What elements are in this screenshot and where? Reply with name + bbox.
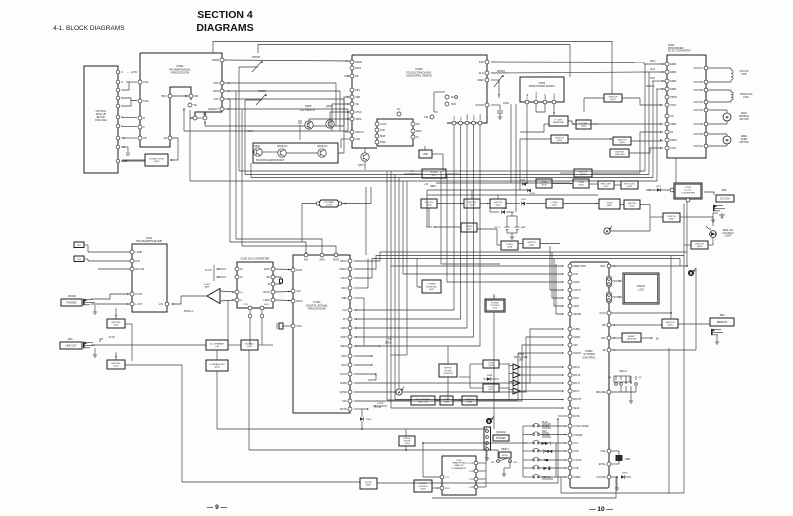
svg-text:K FR: K FR: [573, 451, 579, 453]
wire ripple: [447, 346, 449, 364]
SSTOP network: [491, 104, 500, 106]
servo sub pin S844: [411, 129, 415, 133]
wire dc gnd: [712, 213, 714, 218]
wire PCONT feed: [518, 352, 563, 354]
svg-text:SQSW: SQSW: [339, 391, 347, 394]
svg-text:K PLAY MODE: K PLAY MODE: [573, 425, 589, 428]
wire XLT bundle: [354, 125, 461, 319]
IC401 right pin WBF: [348, 296, 352, 300]
wire LATCH feed: [550, 246, 563, 290]
IC801 pin SUBQ: [568, 327, 572, 331]
svg-text:Q444: Q444: [469, 205, 475, 207]
svg-text:← +3.6V: ← +3.6V: [127, 70, 137, 74]
wire HFB: [424, 146, 426, 150]
switch box Q446: [421, 199, 437, 208]
pickup pin D: [116, 104, 120, 108]
wire q902: [620, 204, 624, 206]
p cont measure box: [549, 116, 568, 126]
svg-text:COMPARATOR: COMPARATOR: [452, 467, 467, 470]
switch box Q454: [551, 135, 568, 143]
svg-text:MOTOR: MOTOR: [740, 141, 749, 144]
switch box Q457: [604, 94, 622, 102]
svg-text:SWITCH: SWITCH: [609, 96, 618, 98]
IC504 pin VD: [665, 114, 669, 118]
svg-text:Q451~454: Q451~454: [418, 402, 429, 404]
svg-text:XTAL: XTAL: [296, 325, 302, 328]
svg-text:DATA: DATA: [296, 269, 302, 272]
svg-text:LRCK: LRCK: [263, 299, 270, 302]
marker B left: [486, 418, 492, 424]
svg-text:VCOI: VCOI: [341, 364, 347, 367]
IC401 right pin VCOO: [348, 372, 352, 376]
IC801 pin K FR: [568, 449, 572, 453]
wire MUTE out: [354, 408, 368, 410]
FE feedback wire: [204, 121, 206, 126]
IC801 pin SQCK: [568, 280, 572, 284]
servo sub pin LOCK: [375, 122, 379, 126]
svg-text:DIAGRAMS: DIAGRAMS: [196, 22, 253, 34]
svg-text:Q446: Q446: [426, 205, 432, 207]
svg-text:D809: D809: [366, 419, 372, 421]
servo pin FG: [397, 112, 401, 116]
wire SLO to ERR2: [491, 72, 648, 73]
IC504 pin VTFG: [665, 146, 669, 150]
IC504 pin HOUT1B: [704, 80, 708, 84]
wire S DOWN: [611, 476, 617, 478]
svg-text:BAT-E: BAT-E: [573, 366, 580, 369]
svg-text:DEFECT: DEFECT: [208, 107, 219, 111]
IC301 pin R IN: [130, 259, 134, 263]
svg-text:LINE OUT: LINE OUT: [65, 344, 77, 347]
power mode sel box: [422, 280, 441, 293]
svg-text:DATA: DATA: [466, 114, 469, 120]
IC502 pin MON: [350, 66, 354, 70]
svg-text:K STOP: K STOP: [573, 460, 582, 462]
IC401 right pin RFCK: [348, 259, 352, 263]
wire left rail 427: [426, 190, 428, 227]
svg-text:Q402: Q402: [503, 102, 510, 105]
svg-text:BAT-PH: BAT-PH: [573, 398, 581, 401]
IC503 pin BATT: [543, 100, 547, 104]
vco amp IC509: [318, 200, 340, 207]
wire XRST feed: [554, 258, 563, 306]
key switch: [523, 434, 532, 436]
wire muting301: [115, 352, 117, 360]
diode D449: [528, 189, 532, 193]
svg-text:D459: D459: [521, 199, 527, 201]
IC501 pin ASY: [220, 97, 224, 101]
svg-text:Q505: Q505: [305, 104, 312, 108]
wire IC503 pins down: [526, 104, 528, 183]
IC201 pin M: [271, 282, 275, 286]
svg-text:REM-IN: REM-IN: [542, 476, 551, 479]
wire right vertical 696: [695, 268, 697, 350]
svg-text:T.B: T.B: [410, 171, 414, 173]
svg-text:L AMP: L AMP: [135, 251, 142, 254]
svg-text:SENS: SENS: [340, 345, 347, 348]
op-amp IC301 headphone amp: [132, 244, 167, 312]
IC501 pin FE node: [193, 116, 197, 120]
IC502 pin MIRR: [350, 60, 354, 64]
svg-text:D914–921: D914–921: [723, 230, 734, 232]
svg-text:SWITCH: SWITCH: [579, 171, 588, 173]
svg-text:D805: D805: [622, 473, 628, 475]
wire SQCK feed: [447, 264, 563, 282]
IC401 right pin CLK: [348, 308, 352, 312]
IC801 pin SQSW: [568, 335, 572, 339]
IC501 pin FOK: [220, 81, 224, 85]
wire vref row: [576, 123, 598, 125]
IC504 pin HOUT4A: [704, 144, 708, 148]
IC801 pin BAT-W: [568, 373, 572, 377]
wire q417 to bat1: [563, 203, 599, 205]
wire PD: [123, 137, 137, 139]
IC801 pin BAT-N: [568, 381, 572, 385]
svg-text:Q503: Q503: [254, 146, 260, 148]
svg-text:R–CH: R–CH: [205, 269, 212, 272]
wire muting302: [115, 308, 117, 319]
svg-text:PDO: PDO: [342, 355, 347, 358]
svg-text:VCAP: VCAP: [526, 93, 529, 99]
svg-text:Q437: Q437: [466, 229, 472, 231]
svg-text:LIGHT: LIGHT: [725, 236, 732, 238]
svg-text:K FF: K FF: [469, 479, 474, 481]
svg-text:XTAL: XTAL: [600, 450, 606, 453]
svg-text:Q430: Q430: [444, 402, 450, 404]
wire E: [122, 117, 137, 119]
key switch: [523, 425, 532, 427]
op-amp IC302: [207, 289, 220, 304]
wire RFCK long: [354, 252, 687, 261]
comparator BAT-N: [513, 380, 520, 386]
wire ASY up: [230, 99, 306, 253]
svg-text:Q303: Q303: [247, 346, 253, 348]
svg-text:Q904: Q904: [667, 325, 673, 327]
IC501 pin LB: [168, 136, 172, 140]
svg-text:OFF: OFF: [513, 462, 518, 464]
pickup pin PD: [116, 136, 120, 140]
wire rin: [84, 258, 88, 260]
svg-text:TE: TE: [193, 103, 197, 107]
svg-text:PWM DRIVER/: PWM DRIVER/: [668, 48, 684, 50]
IC801 pin XRST: [568, 304, 572, 308]
svg-text:HOLD: HOLD: [502, 455, 508, 457]
transistor Q503: [254, 148, 262, 156]
IC401 right pin VCOI: [348, 363, 352, 367]
wire D joins B: [123, 100, 131, 106]
svg-text:Q409: Q409: [488, 365, 494, 367]
wire MIRR: [224, 60, 350, 61]
svg-text:HOUT3B: HOUT3B: [694, 124, 704, 126]
bus left vert 239: [238, 67, 240, 171]
transistor Q506: [326, 120, 334, 128]
svg-text:COIL: COIL: [743, 96, 749, 99]
IC401 right pin WDCK: [348, 267, 352, 271]
IC401 right pin PDO: [348, 354, 352, 358]
switch box Q907: [663, 213, 680, 222]
op-amp IC504 PWM driver DC-DC converter: [667, 55, 706, 158]
svg-text:DC IN 3V: DC IN 3V: [720, 198, 730, 200]
svg-text:Q441: Q441: [495, 205, 501, 207]
svg-text:HOUT2B: HOUT2B: [694, 90, 704, 92]
svg-text:PHONES: PHONES: [496, 438, 506, 440]
wire CP901 left: [646, 189, 670, 191]
ground phones: [94, 310, 96, 312]
marker B right: [688, 270, 694, 276]
svg-text:MOTOR: MOTOR: [740, 118, 749, 121]
wire peak src: [390, 266, 392, 408]
svg-text:DET: DET: [519, 360, 524, 362]
svg-text:WP: WP: [602, 325, 606, 327]
svg-text:LCD: LCD: [638, 287, 644, 291]
wire top run 1: [213, 42, 612, 95]
IC501 pin MIRR: [220, 58, 224, 62]
svg-text:Q407: Q407: [488, 389, 494, 391]
IC801 pin EXTAL: [607, 462, 611, 466]
svg-text:J802: J802: [719, 314, 725, 317]
svg-text:FSE: FSE: [355, 138, 360, 141]
focus coil: [731, 70, 733, 73]
wire rail 195: [427, 194, 598, 196]
wire vdet wires: [470, 363, 483, 365]
svg-text:TRACKING ERROR DET: TRACKING ERROR DET: [256, 159, 285, 162]
marker A left: [396, 389, 402, 395]
svg-text:HEADPHONE: HEADPHONE: [452, 462, 466, 465]
4V reg box Q410: [422, 169, 446, 178]
key switch: [523, 467, 532, 469]
svg-text:J801: J801: [721, 189, 727, 192]
wire pc vdd: [432, 487, 440, 489]
IC504 pin ERR4: [665, 87, 669, 91]
wire Q457 left: [584, 97, 604, 99]
svg-text:S808-1: S808-1: [501, 448, 509, 451]
pickup pin A: [116, 80, 120, 84]
wire TE in: [332, 104, 350, 131]
svg-text:SUB: SUB: [264, 304, 269, 306]
wire SPDLO: [656, 88, 665, 90]
connector strip: [484, 427, 491, 450]
phones jack: [83, 299, 85, 305]
motor M902 sled: [708, 133, 727, 135]
IC801 pin DATA: [568, 296, 572, 300]
IC801 pin VDD: [607, 264, 611, 268]
wire sdown left bus: [615, 477, 617, 498]
wire C joins A: [123, 82, 129, 90]
IC401 top pin EFM: [320, 253, 324, 257]
IC504 pin HOUT2B: [704, 88, 708, 92]
wire DATA feed: [552, 252, 563, 298]
bus vertical 399: [406, 181, 408, 355]
wire q441 up: [497, 195, 499, 199]
svg-text:B: B: [121, 96, 123, 100]
IC401 right pin XRST: [348, 335, 352, 339]
diode D808: [487, 377, 491, 381]
svg-text:T40: T40: [424, 116, 429, 119]
wire batph long: [395, 399, 563, 401]
IC504 pin HWD1: [665, 138, 669, 142]
svg-text:PROCESSOR: PROCESSOR: [308, 307, 326, 311]
svg-text:BATT LEVEL: BATT LEVEL: [514, 356, 528, 359]
IC503 pin VCAP: [525, 100, 529, 104]
svg-text:CONTROL: CONTROL: [582, 355, 596, 359]
svg-text:S DOWN: S DOWN: [596, 477, 606, 479]
svg-text:FOI: FOI: [416, 124, 420, 126]
svg-text:K PB: K PB: [469, 471, 475, 473]
IC801 pin S DOWN: [607, 475, 611, 479]
wire vco left: [302, 204, 316, 243]
svg-text:RV504: RV504: [497, 70, 505, 73]
svg-text:SWITCH: SWITCH: [695, 243, 704, 245]
wire mute bus left: [181, 365, 183, 482]
wire line out: [91, 344, 206, 346]
svg-text:Q504(1/2): Q504(1/2): [277, 146, 288, 148]
IC401 right pin SENS: [348, 344, 352, 348]
IC502 pin SLO: [485, 71, 489, 75]
RE-M resistor: [275, 277, 281, 279]
wire RF: [611, 349, 696, 351]
IC801 pin K MODE: [568, 433, 572, 437]
svg-text:+3.4V: +3.4V: [377, 402, 384, 405]
IC501 pin PD: [138, 136, 142, 140]
optical pick-up block: [84, 66, 118, 173]
svg-text:ASY: ASY: [214, 97, 219, 101]
svg-text:CLK: CLK: [454, 115, 456, 120]
svg-text:→ R CH: → R CH: [106, 336, 115, 339]
wire amp out: [171, 296, 207, 304]
pickup pin C: [116, 88, 120, 92]
transistor Q504b: [318, 149, 326, 157]
svg-text:CLV SWITCH: CLV SWITCH: [300, 109, 315, 112]
wire Q452 right: [629, 148, 663, 153]
svg-text:ON: ON: [491, 462, 495, 464]
svg-text:SPDL: SPDL: [355, 118, 362, 121]
svg-text:Q507: Q507: [358, 164, 365, 167]
svg-text:MUTING: MUTING: [112, 363, 121, 365]
wire ASY: [224, 98, 344, 100]
svg-text:V DET: V DET: [488, 386, 495, 388]
comparator BAT-W: [513, 372, 520, 378]
op-amp IC502 servo box: [352, 55, 487, 148]
wire SL left: [434, 91, 445, 93]
switch box Q902: [624, 200, 640, 209]
IC501 pin TE: [188, 103, 192, 107]
svg-text:EXTAL: EXTAL: [599, 463, 607, 466]
svg-text:K FF: K FF: [573, 443, 579, 445]
wire BFC-RFI: [172, 95, 189, 97]
wire power cont to LD: [122, 159, 145, 161]
svg-text:P CONT: P CONT: [554, 119, 563, 121]
IC801 pin MUTE: [568, 414, 572, 418]
wire bottom bus 493: [561, 492, 684, 494]
svg-text:K MODE: K MODE: [573, 435, 583, 437]
IC401 top pin ASY: [304, 253, 308, 257]
wire SENSE feed: [556, 264, 563, 314]
svg-text:RE: RE: [266, 276, 270, 279]
svg-text:SRO: SRO: [451, 103, 456, 106]
svg-text:PCONT: PCONT: [573, 353, 582, 355]
dc operate box: [206, 340, 228, 350]
svg-text:PHONES: PHONES: [66, 301, 77, 304]
svg-text:Q438: Q438: [507, 247, 513, 249]
svg-text:MIRR: MIRR: [212, 58, 219, 62]
svg-text:Q410: Q410: [431, 175, 437, 177]
svg-text:K REM: K REM: [573, 477, 580, 479]
svg-text:SENS: SENS: [480, 114, 482, 120]
IC801 pin RESUME: [607, 390, 611, 394]
wire BCLK to DSP: [275, 291, 291, 294]
svg-text:SECTION 4: SECTION 4: [197, 9, 253, 21]
svg-text:RST: RST: [601, 338, 606, 340]
wire SQSW route: [354, 337, 563, 392]
svg-text:MUTING: MUTING: [112, 322, 121, 324]
wire +3V rail: [436, 182, 570, 184]
IC803 pin K STOP: [474, 461, 478, 465]
svg-text:VD: VD: [670, 116, 674, 118]
diode D809: [361, 409, 363, 417]
svg-text:LOCK: LOCK: [380, 124, 387, 126]
wire TAO: [652, 80, 665, 82]
wire CLK bundle: [354, 125, 454, 310]
wire A to FOA: [126, 81, 137, 83]
pickup pin B: [116, 96, 120, 100]
svg-text:BATT: BATT: [521, 226, 527, 229]
IC201 pin LRCK: [271, 298, 275, 302]
svg-text:C: C: [121, 88, 123, 92]
svg-text:Q907: Q907: [669, 219, 675, 221]
svg-text:D: D: [121, 104, 123, 108]
wire to LCD 1: [612, 280, 622, 282]
wire SUB down: [261, 310, 263, 345]
IC801 pin FOK: [568, 272, 572, 276]
wire SPDLO: [345, 131, 350, 133]
svg-text:SQCK: SQCK: [573, 282, 580, 284]
svg-text:M: M: [726, 139, 729, 143]
phones small box: [493, 435, 509, 441]
svg-text:D448: D448: [520, 180, 526, 182]
wire SENS up: [242, 109, 336, 253]
svg-text:VDD: VDD: [600, 266, 605, 268]
svg-text:ATSC: ATSC: [355, 111, 362, 114]
svg-text:Q905: Q905: [697, 246, 703, 248]
svg-text:VTFG: VTFG: [670, 148, 676, 150]
IC502 pin FZC: [350, 88, 354, 92]
svg-text:HOUT1A: HOUT1A: [694, 67, 704, 70]
svg-text:XRST: XRST: [573, 306, 580, 308]
svg-text:KSS-331A: KSS-331A: [95, 119, 107, 122]
IC502 pin SPDL: [350, 117, 354, 121]
IC201 pin DATA: [271, 267, 275, 271]
svg-text:Q304: Q304: [214, 367, 220, 369]
svg-text:FOK: FOK: [573, 274, 578, 276]
IC801 pin DIRECTION: [568, 264, 572, 268]
svg-text:SUBQ: SUBQ: [573, 329, 580, 331]
svg-text:Q812: Q812: [429, 289, 435, 291]
dc jack symbol: [713, 205, 715, 211]
svg-text:— 9 —: — 9 —: [207, 504, 228, 511]
svg-text:B+: B+: [656, 338, 660, 341]
bus left vert 251: [250, 163, 252, 178]
svg-text:MDP: MDP: [380, 136, 386, 138]
wire line bus mid: [228, 344, 241, 346]
muting box Q302: [107, 319, 125, 328]
svg-text:DC-DC: DC-DC: [684, 190, 691, 192]
svg-text:SENS: SENS: [333, 260, 340, 262]
switch box Q905: [691, 241, 708, 249]
op-amp IC401 digital signal processor: [293, 255, 350, 413]
svg-text:RV301–1: RV301–1: [184, 311, 194, 313]
diode D446: [502, 210, 506, 214]
wire VDD: [611, 265, 687, 267]
